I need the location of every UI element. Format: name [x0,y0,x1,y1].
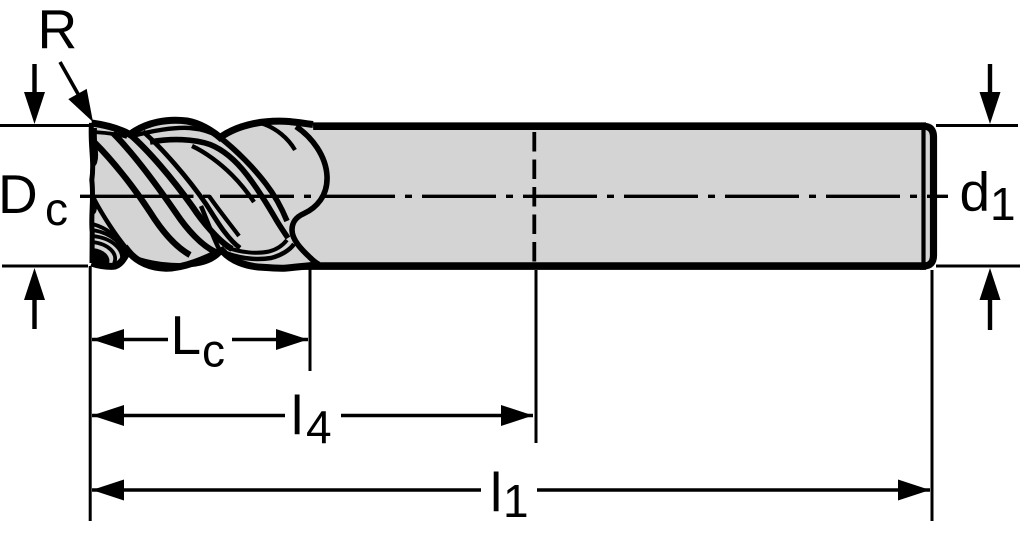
svg-text:1: 1 [503,475,529,527]
svg-text:L: L [171,304,202,366]
svg-text:l: l [490,461,502,523]
svg-text:d: d [960,161,991,223]
svg-text:1: 1 [990,178,1016,230]
svg-text:R: R [38,0,78,60]
svg-text:D: D [0,163,38,225]
svg-text:c: c [45,183,68,235]
svg-text:4: 4 [306,401,332,453]
svg-text:l: l [291,384,303,446]
svg-text:c: c [202,325,225,377]
